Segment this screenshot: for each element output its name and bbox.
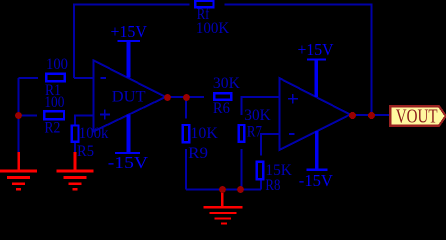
resistor R7 — [239, 125, 245, 142]
svg-text:10K: 10K — [190, 125, 218, 142]
wire bottom ground bus — [186, 188, 261, 190]
resistor Rf — [195, 1, 213, 8]
svg-text:100K: 100K — [196, 20, 230, 37]
wire left input vertical — [18, 78, 20, 152]
ground (left input) — [0, 152, 37, 191]
U2 plus sign — [288, 94, 298, 104]
wire R1 left stub — [19, 77, 39, 79]
svg-text:100: 100 — [46, 56, 68, 73]
wire R2 left stub — [19, 114, 38, 116]
svg-text:+15V: +15V — [298, 40, 335, 59]
resistor R1 — [46, 74, 65, 82]
wire R8 top lead — [260, 133, 262, 156]
svg-text:-15V: -15V — [299, 171, 334, 190]
power +15V (U2) — [298, 40, 335, 97]
wire node A to op2 plus input — [241, 96, 280, 98]
svg-text:R8: R8 — [265, 177, 280, 194]
wire R9 top lead — [185, 97, 187, 118]
svg-text:VOUT: VOUT — [396, 105, 438, 127]
wire inverting input of DUT — [74, 77, 93, 79]
svg-text:R6: R6 — [213, 100, 230, 117]
node feedback tap — [368, 112, 375, 119]
wire op2 inverting input — [261, 133, 280, 135]
node input junction — [15, 112, 22, 119]
ground (center) — [203, 189, 242, 224]
power -15V (DUT) — [108, 115, 149, 173]
op-amp U2 — [280, 78, 351, 150]
DUT plus sign — [100, 110, 110, 120]
svg-text:100: 100 — [44, 94, 64, 111]
wire noninverting input of DUT — [74, 114, 93, 116]
svg-text:+15V: +15V — [111, 22, 148, 41]
resistor R2 — [44, 111, 64, 119]
svg-text:R9: R9 — [188, 145, 208, 162]
U2 minus sign — [289, 133, 295, 135]
ground (under R5) — [57, 152, 94, 191]
wire feedback top-right run and right riser — [224, 5, 371, 116]
wire R5 top lead — [74, 115, 76, 124]
node DUT output — [164, 94, 171, 101]
DUT minus sign — [101, 77, 106, 79]
power +15V (DUT) — [111, 22, 148, 78]
port VOUT — [390, 106, 446, 125]
resistor R6 — [214, 93, 231, 99]
svg-text:R5: R5 — [77, 143, 94, 160]
wire feedback top-left run — [74, 5, 190, 78]
wire R5 bottom lead — [74, 143, 76, 152]
wire DUT output — [166, 96, 205, 98]
node ground stem junction — [219, 186, 226, 193]
wire R7 bottom lead — [240, 149, 242, 190]
op-amp DUT — [93, 60, 165, 131]
resistor R5 — [72, 126, 79, 142]
wire R8 bottom lead — [260, 180, 262, 189]
wire op2 output — [350, 114, 390, 116]
node R9 tap — [183, 94, 190, 101]
svg-text:R2: R2 — [44, 120, 60, 137]
svg-text:R7: R7 — [247, 124, 262, 141]
resistor R8 — [257, 162, 264, 179]
power -15V (U2) — [299, 131, 334, 190]
wire R7 top lead — [240, 96, 242, 115]
wire R9 bottom lead — [185, 149, 187, 189]
svg-text:30K: 30K — [244, 107, 271, 124]
svg-text:30K: 30K — [213, 75, 240, 92]
resistor R9 — [183, 125, 190, 142]
node op2 output — [349, 112, 356, 119]
svg-text:-15V: -15V — [108, 153, 149, 172]
node R7 bottom junction — [237, 186, 244, 193]
svg-text:DUT: DUT — [112, 89, 146, 106]
